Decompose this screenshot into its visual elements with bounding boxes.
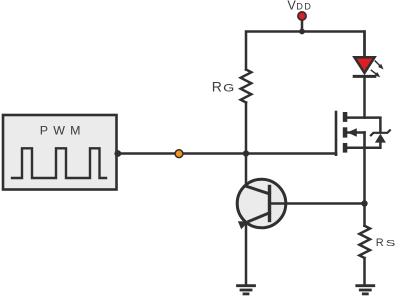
MOSFET M1 drain lead [347, 118, 380, 132]
svg-text:R: R [376, 237, 384, 249]
svg-text:S: S [386, 238, 395, 248]
transistor Q1 base bar [268, 187, 271, 221]
junction sense node [361, 200, 367, 206]
PWM source block [3, 115, 117, 190]
wire VDD stub [301, 21, 304, 32]
junction gate node [243, 150, 249, 156]
resistor RS [359, 226, 370, 258]
LED D1 wire from rail [363, 32, 366, 58]
svg-text:PWM: PWM [40, 124, 86, 138]
transistor Q1 collector stroke [246, 186, 270, 194]
wire PWM output to gate node [118, 152, 246, 155]
body diode Z1 cathode (zener bar) [371, 130, 390, 135]
LED D1 cathode bar [354, 75, 375, 78]
wire top rail [246, 32, 365, 70]
MOSFET M1 body arrowhead [347, 128, 357, 137]
terminal PWM output pin [114, 150, 121, 157]
svg-text:R: R [212, 78, 222, 94]
wire RG bottom to gate node [245, 103, 248, 154]
wire gate node to MOSFET gate [246, 152, 336, 155]
LED D1 anode triangle [355, 57, 375, 73]
label RS [376, 237, 395, 249]
MOSFET M1 source lead [347, 143, 380, 148]
svg-text:G: G [223, 82, 234, 94]
LED D1 light arrow 1 [375, 61, 385, 71]
ground (below RS) [357, 286, 374, 294]
wire Q1 emitter to ground [245, 222, 248, 285]
svg-text:DD: DD [296, 1, 312, 11]
transistor Q1 emitter stroke [249, 213, 270, 222]
wire LED cathode to MOSFET drain [363, 76, 366, 117]
node probe (orange dot) [175, 150, 183, 158]
transistor Q1 NPN body [237, 179, 286, 228]
transistor Q1 NPN collector wire [245, 154, 248, 187]
waveform pulses [12, 148, 106, 178]
power terminal VDD (red dot) [298, 12, 306, 20]
MOSFET M1 body arrow line [348, 131, 365, 134]
junction VDD node [299, 29, 305, 35]
label RG [212, 78, 235, 94]
wire MOSFET source to sense node [363, 148, 366, 226]
wire Q1 base to sense node [270, 202, 365, 205]
MOSFET M1 body-to-source link [363, 133, 366, 148]
resistor RG [241, 70, 252, 103]
wire RS to ground [363, 258, 366, 286]
body diode Z1 anode triangle [375, 134, 386, 143]
transistor Q1 emitter arrowhead [238, 218, 250, 230]
MOSFET M1 gate plate [335, 112, 338, 155]
MOSFET M1 channel bars [343, 112, 348, 153]
node VDD label [287, 0, 312, 12]
LED D1 light arrow 2 [371, 70, 381, 79]
ground (below Q1) [238, 286, 255, 294]
